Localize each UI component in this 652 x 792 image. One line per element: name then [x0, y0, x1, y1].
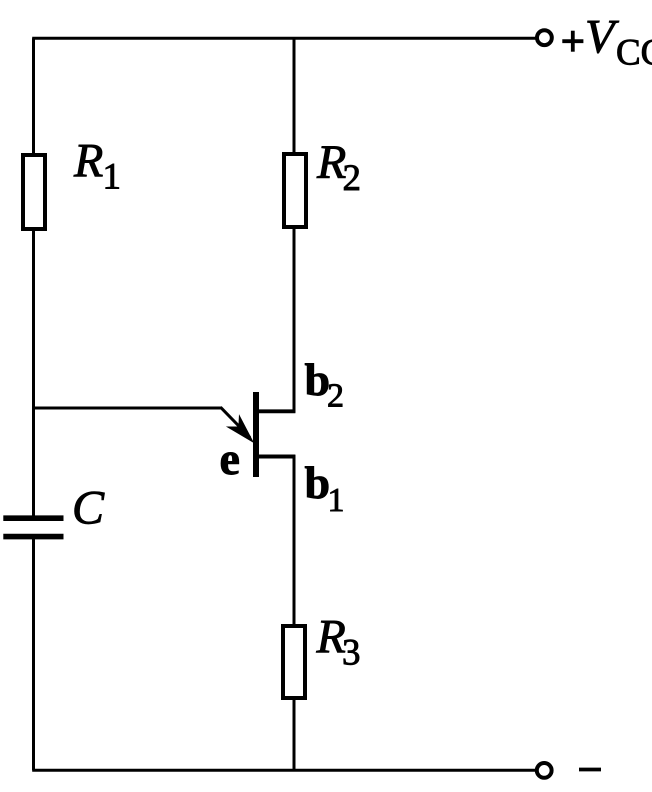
terminal +Vcc circle: [537, 30, 552, 45]
transistor emitter arrowhead: [226, 414, 254, 443]
svg-text:2: 2: [343, 158, 362, 199]
wire bottom rail: [32, 769, 536, 772]
label +Vcc plus sign: [562, 39, 583, 43]
svg-text:R: R: [73, 135, 103, 188]
svg-text:b: b: [305, 457, 331, 508]
wire R3 to bottom rail: [293, 698, 296, 770]
wire b1 corner to R3: [293, 455, 296, 627]
svg-text:2: 2: [327, 378, 344, 415]
wire left vertical lower: [32, 539, 35, 770]
resistor R1: [23, 155, 45, 229]
label minus sign: [579, 768, 601, 772]
svg-text:V: V: [585, 11, 619, 64]
transistor UJT base bar: [253, 392, 259, 477]
svg-text:3: 3: [342, 632, 361, 673]
svg-text:1: 1: [328, 482, 345, 519]
svg-text:e: e: [220, 433, 240, 484]
capacitor C top plate: [3, 515, 63, 521]
svg-text:CC: CC: [616, 33, 652, 74]
wire middle vertical (R2 to b2 corner): [293, 227, 296, 413]
wire emitter diagonal: [221, 407, 251, 437]
resistor R3: [283, 626, 305, 698]
wire emitter horizontal: [32, 407, 221, 410]
svg-text:1: 1: [103, 157, 122, 198]
transistor b1 stub: [256, 455, 295, 459]
wire top rail: [32, 37, 536, 40]
wire middle vertical top (rail to R2): [293, 38, 296, 156]
wire left vertical upper: [32, 38, 35, 516]
capacitor C bottom plate: [3, 534, 63, 540]
svg-text:C: C: [72, 482, 105, 535]
transistor b2 stub: [256, 409, 295, 413]
resistor R2: [284, 154, 306, 227]
terminal minus circle: [537, 763, 552, 778]
